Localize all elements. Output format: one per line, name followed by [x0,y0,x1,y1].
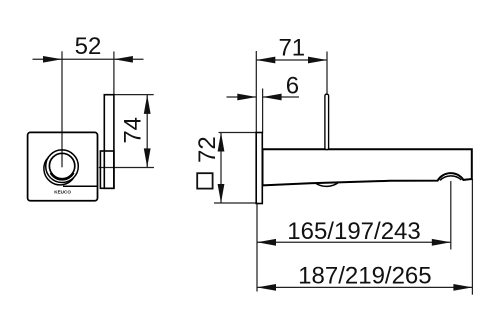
svg-text:74: 74 [119,117,146,144]
svg-text:6: 6 [286,72,299,99]
svg-text:72: 72 [194,136,221,163]
svg-text:KEUCO: KEUCO [54,190,71,195]
svg-text:52: 52 [75,33,102,60]
svg-text:71: 71 [278,34,305,61]
svg-text:165/197/243: 165/197/243 [287,218,420,245]
svg-text:187/219/265: 187/219/265 [298,262,431,289]
